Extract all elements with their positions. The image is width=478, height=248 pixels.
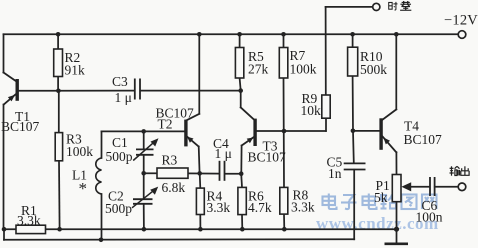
svg-text:BC107: BC107: [404, 132, 443, 147]
svg-text:−12V: −12V: [444, 13, 478, 29]
svg-text:BC107: BC107: [1, 119, 40, 134]
svg-text:100n: 100n: [416, 210, 443, 225]
svg-text:6.8k: 6.8k: [162, 180, 186, 195]
svg-text:3.3k: 3.3k: [17, 213, 41, 228]
svg-text:3.3k: 3.3k: [291, 200, 315, 215]
svg-text:5k: 5k: [374, 190, 388, 205]
svg-text:4.7k: 4.7k: [248, 200, 272, 215]
svg-text:*: *: [79, 179, 88, 198]
svg-text:BC107: BC107: [248, 150, 287, 165]
svg-text:500p: 500p: [105, 201, 132, 216]
svg-text:91k: 91k: [65, 63, 86, 78]
svg-text:3.3k: 3.3k: [207, 200, 231, 215]
svg-text:1n: 1n: [328, 166, 342, 181]
svg-text:100k: 100k: [66, 144, 93, 159]
svg-text:1 μ: 1 μ: [215, 146, 232, 161]
svg-text:100k: 100k: [290, 62, 317, 77]
svg-text:500p: 500p: [106, 149, 133, 164]
svg-text:10k: 10k: [301, 103, 322, 118]
svg-text:1 μ: 1 μ: [115, 90, 132, 105]
svg-text:27k: 27k: [248, 62, 269, 77]
svg-text:R3: R3: [162, 153, 178, 168]
svg-text:500k: 500k: [360, 62, 387, 77]
svg-text:C3: C3: [112, 74, 128, 89]
svg-text:T2: T2: [158, 117, 173, 132]
svg-text:C1: C1: [112, 135, 128, 150]
